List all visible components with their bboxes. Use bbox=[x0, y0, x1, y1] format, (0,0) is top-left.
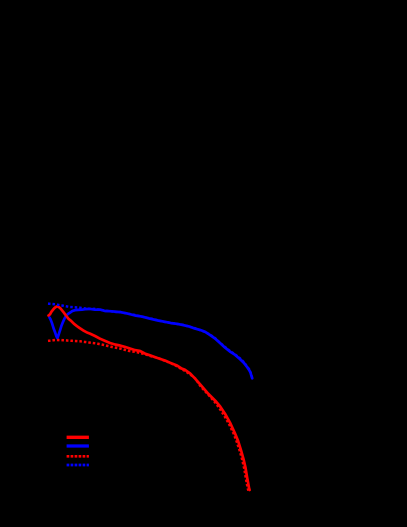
legend sample: blue solid bbox=[67, 444, 89, 447]
legend sample: red dotted bbox=[67, 455, 89, 458]
legend sample: blue dotted bbox=[67, 464, 89, 467]
legend sample: red solid bbox=[67, 436, 89, 439]
red dotted curve bbox=[48, 340, 248, 491]
blue solid curve bbox=[50, 309, 253, 378]
blue dotted curve bbox=[48, 304, 252, 378]
red solid curve bbox=[49, 306, 250, 490]
